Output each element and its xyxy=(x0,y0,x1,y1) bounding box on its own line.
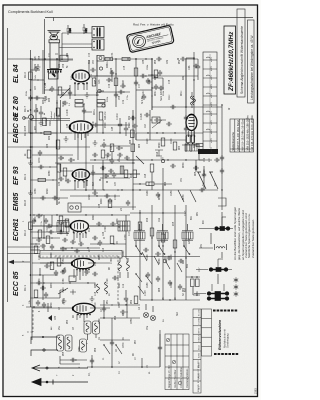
wire EL84 pins xyxy=(75,82,87,96)
junction xyxy=(191,276,193,278)
capacitor xyxy=(124,156,130,160)
tube pin xyxy=(85,231,87,233)
switch arm xyxy=(136,274,152,294)
wire xyxy=(8,146,91,148)
resistor R73 xyxy=(173,240,177,248)
ground xyxy=(43,96,48,102)
resistor xyxy=(110,236,114,244)
wire xyxy=(88,334,97,340)
wire xyxy=(148,75,160,88)
scan noise xyxy=(0,0,1,1)
wire xyxy=(159,224,163,246)
dial lamp 1 xyxy=(70,206,73,209)
junction xyxy=(85,232,86,233)
coil with core xyxy=(157,231,168,241)
junction xyxy=(73,232,74,233)
wire speaker to frame xyxy=(53,18,55,22)
tube pin xyxy=(79,132,81,134)
capacitor C93 xyxy=(170,164,176,168)
junction xyxy=(189,253,191,255)
junction xyxy=(61,262,62,263)
junction xyxy=(123,85,124,86)
tube label EF93 xyxy=(13,166,27,185)
capacitor xyxy=(40,244,46,248)
wire xyxy=(40,262,72,264)
wire xyxy=(146,304,153,312)
junction xyxy=(97,243,98,244)
resistor R4 xyxy=(57,258,61,266)
tube EM85 tuning indicator xyxy=(186,115,197,137)
switch arm xyxy=(136,246,141,254)
tube pin xyxy=(86,314,88,316)
capacitor C70 xyxy=(90,68,96,72)
coil box hatched right xyxy=(118,221,130,231)
coil L4 xyxy=(97,284,100,293)
capacitor xyxy=(214,158,220,162)
wire ECC85b pins xyxy=(77,314,87,322)
resistor R62 xyxy=(150,164,154,172)
junction xyxy=(109,79,110,80)
capacitor C101 xyxy=(155,252,161,256)
capacitor xyxy=(40,196,46,200)
tube dark edge xyxy=(71,173,74,177)
resistor R43 xyxy=(92,78,96,86)
wire bus xyxy=(150,110,163,205)
wire xyxy=(152,168,163,190)
capacitor C68 xyxy=(68,90,72,96)
wire xyxy=(100,304,140,306)
capacitor C24 xyxy=(78,242,84,246)
wire xyxy=(43,244,45,250)
junction xyxy=(174,251,175,252)
junction xyxy=(81,132,82,133)
capacitor C10 xyxy=(60,270,66,274)
tube pin xyxy=(86,180,88,182)
capacitor C81 xyxy=(146,78,150,84)
capacitor xyxy=(54,270,58,276)
tube pin xyxy=(80,314,82,316)
junction xyxy=(135,58,137,60)
wire xyxy=(58,262,71,264)
switch arm xyxy=(159,246,164,254)
wire xyxy=(136,132,203,134)
capacitor C80 xyxy=(134,80,138,86)
capacitor C95 xyxy=(184,115,188,121)
terminal xyxy=(23,117,26,120)
resistor R23 xyxy=(75,104,83,107)
capacitor xyxy=(114,92,118,98)
junction xyxy=(183,245,185,247)
junction xyxy=(132,162,133,163)
junction xyxy=(30,109,31,110)
wire xyxy=(186,57,194,59)
wire xyxy=(191,92,193,108)
coil box L6 xyxy=(65,335,72,351)
wire xyxy=(125,215,127,258)
junction xyxy=(174,132,175,133)
dashed box tuner right xyxy=(117,256,119,304)
junction xyxy=(87,247,88,248)
oscillator coil box hatched xyxy=(57,221,69,234)
junction xyxy=(30,132,32,134)
wire xyxy=(31,166,58,168)
junction xyxy=(65,248,66,249)
tube pin xyxy=(85,269,87,271)
schematic sheet top border xyxy=(45,17,253,19)
junction xyxy=(74,82,75,83)
capacitor xyxy=(32,218,36,224)
junction xyxy=(103,317,104,318)
wire xyxy=(136,224,140,246)
box xyxy=(60,55,68,61)
wire xyxy=(42,275,44,300)
wire xyxy=(44,89,70,91)
junction xyxy=(31,58,33,60)
switch arm row xyxy=(142,252,182,272)
tube voltage table col1 xyxy=(193,309,201,393)
wire xyxy=(194,229,214,294)
wire diode lines xyxy=(31,119,71,121)
lamp 1 xyxy=(143,312,148,317)
capacitor C90b xyxy=(144,113,150,117)
junction xyxy=(83,103,84,104)
capacitor C96 xyxy=(184,126,188,132)
calibration table text xyxy=(168,365,189,388)
resistor R50 xyxy=(134,68,138,76)
wire xyxy=(182,145,200,152)
arrow mark xyxy=(48,315,52,321)
junction xyxy=(221,189,222,190)
terminal xyxy=(102,104,105,107)
tube pin xyxy=(73,231,75,233)
resistor xyxy=(38,178,46,181)
pilot bracket xyxy=(218,198,226,206)
capacitor C91 xyxy=(82,24,88,34)
junction xyxy=(30,274,32,276)
asterisk footnote xyxy=(234,284,239,289)
wire EABC80 pins xyxy=(75,131,88,140)
outer page frame xyxy=(3,5,258,397)
coil L3 xyxy=(105,282,108,294)
junction xyxy=(37,231,38,232)
tube ECH81 envelope xyxy=(71,221,89,232)
junction xyxy=(75,359,76,360)
wire xyxy=(31,97,45,99)
tube pin xyxy=(74,180,76,182)
capacitor xyxy=(38,165,44,169)
rect R5 xyxy=(69,276,76,282)
potentiometer arrow xyxy=(60,88,70,98)
resistor R71 xyxy=(150,228,154,236)
wire grid lead xyxy=(60,164,73,171)
wire xyxy=(60,100,62,133)
capacitor xyxy=(96,222,102,226)
junction xyxy=(117,159,118,160)
capacitor xyxy=(74,249,80,253)
wire xyxy=(84,104,92,120)
junction xyxy=(94,159,95,160)
junction xyxy=(49,166,50,167)
wire xyxy=(211,233,222,284)
capacitor xyxy=(118,90,124,94)
junction xyxy=(164,253,166,255)
table symbol circle xyxy=(178,381,181,384)
capacitor xyxy=(103,174,109,178)
junction xyxy=(96,195,97,196)
capacitor C84 xyxy=(170,105,176,109)
antenna arrow open xyxy=(32,365,88,371)
capacitor xyxy=(110,158,114,164)
tuner unit switch block xyxy=(203,52,217,150)
wire xyxy=(36,104,41,120)
capacitor xyxy=(91,170,95,176)
capacitor xyxy=(120,310,126,314)
ground xyxy=(93,140,98,146)
junction xyxy=(139,189,140,190)
resistor R31 xyxy=(44,132,51,135)
junction xyxy=(121,189,122,190)
coil L2 winding xyxy=(95,323,98,332)
capacitor C91b xyxy=(154,118,160,122)
tube ECC85 envelope b xyxy=(73,303,95,313)
junction xyxy=(119,132,120,133)
junction xyxy=(79,233,80,234)
wire xyxy=(24,117,28,119)
wire xyxy=(31,243,41,245)
wire anode bus EL84 xyxy=(8,58,74,60)
junction xyxy=(145,58,146,59)
wire xyxy=(31,282,56,284)
junction xyxy=(49,231,50,232)
wire dial bus xyxy=(32,214,130,216)
junction xyxy=(51,237,52,238)
wire xyxy=(136,59,152,110)
junction xyxy=(51,225,52,226)
wire right bus xyxy=(221,105,223,210)
capacitor xyxy=(106,78,112,82)
resistor xyxy=(46,236,50,244)
bracket cap xyxy=(155,150,164,158)
resistor R72 xyxy=(161,234,165,242)
junction xyxy=(135,245,137,247)
junction xyxy=(83,83,84,84)
capacitor C21 xyxy=(48,230,54,234)
capacitor C32 xyxy=(100,166,106,170)
switch arm 1 xyxy=(197,172,206,189)
resistor R15 xyxy=(63,168,67,176)
resistor R30 xyxy=(27,150,31,158)
capacitor xyxy=(36,214,42,218)
wire xyxy=(55,162,135,164)
bus anode supply xyxy=(31,60,33,340)
junction xyxy=(151,87,152,88)
junction xyxy=(85,132,86,133)
capacitor xyxy=(158,70,162,76)
tube pin xyxy=(83,314,85,316)
capacitor xyxy=(50,86,54,92)
annotation box right note xyxy=(248,20,255,103)
coil box L7 xyxy=(80,339,87,352)
resistor xyxy=(108,200,112,208)
junction xyxy=(85,269,86,270)
wire xyxy=(91,120,104,133)
resistor R26 xyxy=(99,112,103,120)
junction xyxy=(162,132,163,133)
coil box L2 xyxy=(93,321,100,334)
wire xyxy=(184,224,188,246)
junction xyxy=(151,237,152,238)
wire xyxy=(43,215,45,238)
junction xyxy=(193,79,194,80)
terminal circle xyxy=(43,349,45,351)
resistor xyxy=(43,118,47,126)
dial lamp 2 xyxy=(75,206,78,209)
wire xyxy=(62,33,92,44)
wire xyxy=(31,231,59,233)
capacitor xyxy=(70,358,76,362)
capacitor xyxy=(62,268,66,274)
resistor xyxy=(114,78,118,86)
wire xyxy=(78,133,86,190)
table symbol slash xyxy=(167,339,175,363)
resistor xyxy=(131,144,135,152)
tube pin xyxy=(79,269,81,271)
capacitor C30 xyxy=(58,177,64,181)
switch arm xyxy=(184,246,189,254)
resistor xyxy=(196,279,200,287)
junction xyxy=(39,274,40,275)
junction xyxy=(111,366,113,368)
junction xyxy=(77,132,78,133)
junction xyxy=(103,344,104,345)
junction xyxy=(121,147,122,148)
junction xyxy=(117,277,118,278)
junction xyxy=(61,58,63,60)
capacitor C23 xyxy=(70,240,76,244)
capacitor C33 xyxy=(108,169,114,173)
wire xyxy=(186,277,200,295)
wire xyxy=(32,226,71,238)
lamp 2 xyxy=(150,315,155,320)
legend paragraph 1 xyxy=(233,206,255,260)
capacitor C11 xyxy=(84,270,90,274)
resistor xyxy=(34,246,38,254)
junction xyxy=(91,366,93,368)
capacitor xyxy=(40,286,46,290)
wire agc bus xyxy=(60,189,198,191)
dial scale xyxy=(40,251,122,259)
fuse box xyxy=(97,56,104,62)
tube label EM85 xyxy=(13,193,27,211)
wire xyxy=(127,159,140,161)
wire xyxy=(115,59,117,107)
band table Wellenbereiche xyxy=(230,119,254,152)
junction xyxy=(167,159,168,160)
wire cathode xyxy=(57,94,99,96)
resistor R38 pot xyxy=(58,87,62,95)
switch arm xyxy=(178,190,184,202)
wire xyxy=(99,90,104,92)
capacitor C20 xyxy=(58,230,64,234)
archive stamp NVHR xyxy=(126,25,174,53)
capacitor C106 xyxy=(168,280,172,286)
capacitor xyxy=(124,296,128,302)
capacitor xyxy=(102,306,106,312)
mains transformer winding 1 xyxy=(92,27,104,38)
junction xyxy=(126,311,127,312)
tube pin xyxy=(74,83,76,85)
capacitor C82 xyxy=(154,84,158,90)
capacitor C40 xyxy=(62,101,68,105)
transformer primary box xyxy=(49,73,59,79)
junction xyxy=(31,146,32,147)
dashed wire FM antenna xyxy=(27,310,33,332)
junction xyxy=(30,214,32,216)
capacitor C107 xyxy=(178,284,182,290)
tube label ECC85 xyxy=(13,271,27,296)
wire xyxy=(90,225,126,227)
wire xyxy=(150,119,166,121)
ground xyxy=(64,136,69,142)
annotation box frequency note xyxy=(237,9,245,97)
capacitor C22 xyxy=(62,238,68,242)
IF transformer Bd1 xyxy=(215,217,230,231)
wire xyxy=(136,89,152,91)
resistor xyxy=(133,170,137,178)
ground xyxy=(85,92,90,98)
junction xyxy=(185,159,186,160)
junction xyxy=(52,179,53,180)
wire xyxy=(31,197,69,199)
terminal circle xyxy=(163,259,167,263)
tube pin xyxy=(89,314,91,316)
junction xyxy=(85,214,86,215)
resistor R16 xyxy=(120,166,124,174)
capacitor xyxy=(142,94,146,100)
junction xyxy=(115,73,116,74)
junction xyxy=(151,95,152,96)
trimmer cap xyxy=(70,289,76,294)
coil L11 xyxy=(119,262,122,271)
tube pin xyxy=(82,180,84,182)
junction xyxy=(111,214,112,215)
junction xyxy=(71,247,72,248)
junction xyxy=(221,104,222,105)
wire xyxy=(140,159,203,161)
switch arm xyxy=(136,156,144,164)
junction xyxy=(147,132,148,133)
wire xyxy=(130,212,186,214)
wire xyxy=(32,268,58,275)
junction xyxy=(111,304,112,305)
main wiring xyxy=(32,48,198,368)
tube dark edge xyxy=(189,113,194,116)
box xyxy=(152,117,160,123)
junction xyxy=(217,159,218,160)
capacitor C111 xyxy=(220,168,224,174)
switch arm xyxy=(190,190,196,202)
junction xyxy=(35,243,36,244)
junction xyxy=(151,74,152,75)
capacitor xyxy=(58,156,64,160)
junction xyxy=(127,58,128,59)
wire xyxy=(8,132,58,134)
capacitor C100 xyxy=(143,248,149,252)
wire xyxy=(100,146,130,160)
capacitor xyxy=(36,300,40,306)
junction xyxy=(77,83,78,84)
tube voltage table col1 text xyxy=(197,360,200,392)
